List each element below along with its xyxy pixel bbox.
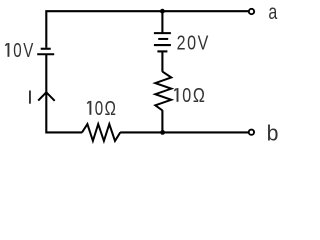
wire middle top: node A down to 20V battery [161,11,163,33]
battery V1 10V negative plate (short) [41,48,51,50]
wire bottom-right: resistor R2 to terminal b [120,131,248,133]
current arrow I on left branch [38,92,55,101]
svg-text:0Ω: 0Ω [182,83,206,106]
label 10Ω vertical resistor: digit 1 (custom narrow glyph) [177,88,179,102]
battery V2 20V plate short 2 [157,50,167,52]
svg-text:b: b [267,120,279,146]
resistor R1 10Ω vertical [155,72,171,111]
battery V2 20V plate long 1 [154,32,171,34]
wire middle: 20V battery to resistor R1 [161,51,163,71]
label I current [29,91,31,104]
node B junction dot [160,130,165,135]
svg-text:20V: 20V [177,31,210,54]
terminal a open circle [249,9,254,14]
resistor R2 10Ω horizontal [82,124,120,141]
svg-text:0Ω: 0Ω [95,97,118,120]
node A junction dot [160,9,165,14]
label 10Ω horizontal resistor: digit 1 (custom narrow glyph) [89,101,91,115]
battery V1 10V positive plate (long) [37,53,54,55]
svg-text:a: a [268,0,277,24]
svg-text:0V: 0V [13,39,34,62]
wire left-bottom: from 10V battery down, along bottom to resistor R2 [46,54,82,132]
wire middle bottom: resistor R1 to node B [161,110,163,132]
terminal b open circle [249,130,254,135]
label 10V: digit 1 (custom narrow glyph) [7,43,9,57]
wire top: from terminal a across to left branch, down to 10V battery [46,11,248,48]
battery V2 20V plate long 2 [154,44,171,46]
battery V2 20V plate short 1 [158,38,168,40]
